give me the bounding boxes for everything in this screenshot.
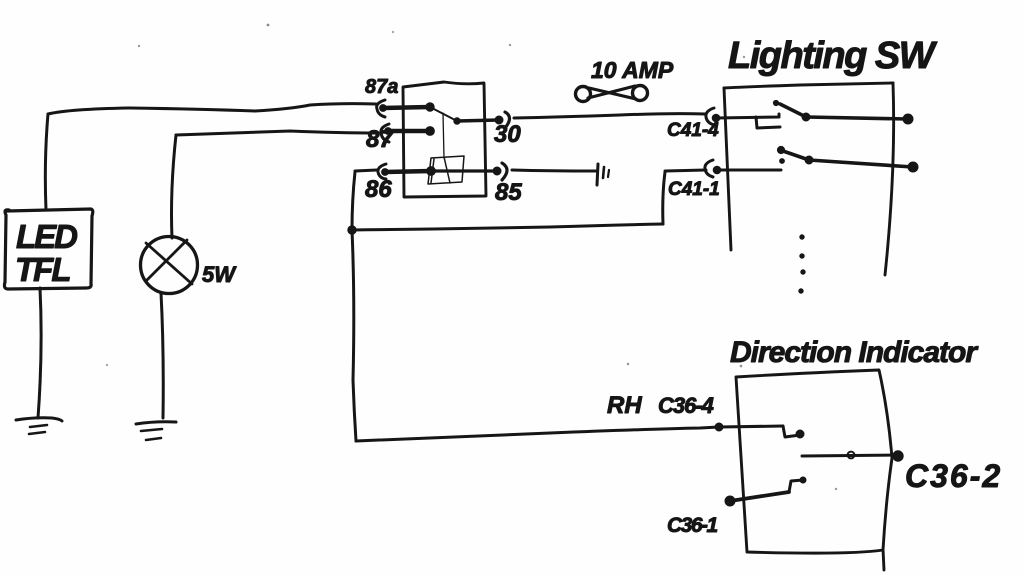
paper specks — [267, 24, 270, 27]
wire LED box bottom to ground — [38, 288, 41, 418]
wire step to switch pivot — [756, 117, 780, 128]
wire 30 to C41-4 — [514, 114, 706, 118]
terminal 87 stub — [388, 129, 430, 134]
lighting switch 1 pivot — [773, 100, 778, 105]
LED TFL box — [4, 209, 92, 289]
relay box — [403, 82, 486, 197]
svg-text:C36-4: C36-4 — [658, 393, 714, 418]
wire junction riser — [352, 172, 356, 441]
svg-text:Lighting SW: Lighting SW — [728, 35, 938, 77]
connector C41-4 — [706, 108, 714, 125]
svg-text:RH: RH — [607, 392, 642, 419]
lighting switch 1 arm — [780, 104, 806, 117]
wire C41-1 into box — [717, 169, 781, 172]
wire C36-2 — [802, 455, 896, 456]
wire 86 left stub — [355, 170, 377, 171]
node 87a inner — [426, 103, 434, 111]
wire LED box top riser — [45, 114, 48, 210]
terminal 87a stub — [383, 107, 430, 108]
wire riser to C41-1 — [665, 170, 706, 171]
Lighting SW box — [724, 83, 893, 88]
ground (LED) — [16, 418, 62, 421]
wire switch 1 output — [806, 117, 908, 119]
node junction — [348, 226, 356, 234]
ellipsis dots — [800, 235, 804, 239]
svg-text:C36-1: C36-1 — [667, 514, 718, 537]
wire lamp top riser — [172, 135, 177, 238]
relay coil — [428, 156, 464, 184]
wire RH into box — [719, 426, 783, 427]
connector C41-1 — [705, 160, 713, 177]
svg-text:LED: LED — [16, 218, 77, 255]
svg-text:87a: 87a — [365, 76, 398, 98]
wire C41-4 into box — [716, 114, 779, 118]
fuse 10AMP — [576, 87, 591, 102]
lamp 5W bulb — [141, 237, 198, 294]
connector 87a — [377, 100, 385, 117]
connector C36-2 inline — [848, 452, 855, 459]
wire lamp bottom to ground — [161, 293, 163, 418]
relay switch arm — [430, 107, 457, 121]
wire arm to 30 — [457, 120, 499, 121]
svg-text:5W: 5W — [202, 262, 237, 287]
terminal 86 stub — [385, 171, 431, 172]
chassis ground 85 — [597, 164, 598, 185]
node 87 inner — [426, 127, 435, 136]
wire 85 to chassis — [512, 170, 596, 171]
wire 87 horizontal — [176, 131, 378, 135]
svg-text:Direction Indicator: Direction Indicator — [730, 336, 979, 369]
wire C36-1 arm — [730, 492, 789, 501]
connector 86 — [378, 164, 386, 179]
node 86 inner — [427, 167, 436, 176]
connector 85 — [502, 163, 507, 180]
svg-text:10 AMP: 10 AMP — [591, 57, 674, 83]
wire junction to C41-1 riser — [352, 224, 663, 230]
node RH — [715, 423, 723, 431]
lighting switch 2 arm — [783, 151, 809, 160]
connector 30 — [505, 112, 510, 128]
relay coil link — [443, 113, 444, 158]
svg-text:TFL: TFL — [15, 251, 70, 288]
wire switch 2 output — [809, 160, 913, 167]
ground (lamp) — [136, 422, 176, 424]
node C36-1 — [725, 496, 735, 506]
wire box right bottom extension — [883, 549, 884, 570]
connector 87 — [381, 124, 389, 142]
wire RH run — [356, 427, 719, 441]
svg-text:C41-1: C41-1 — [668, 179, 720, 200]
wire coil to 85 — [431, 169, 497, 172]
wire top horizontal to 87a — [48, 104, 376, 114]
wire step C36-4 — [783, 426, 800, 437]
svg-text:C36-2: C36-2 — [905, 458, 1002, 494]
Direction Indicator box — [736, 370, 892, 553]
svg-text:86: 86 — [365, 176, 392, 203]
wire step C36-1 — [789, 480, 803, 492]
wire C41-1 riser — [663, 172, 665, 224]
svg-text:85: 85 — [495, 179, 522, 206]
lighting switch 2 pivot — [777, 146, 784, 153]
